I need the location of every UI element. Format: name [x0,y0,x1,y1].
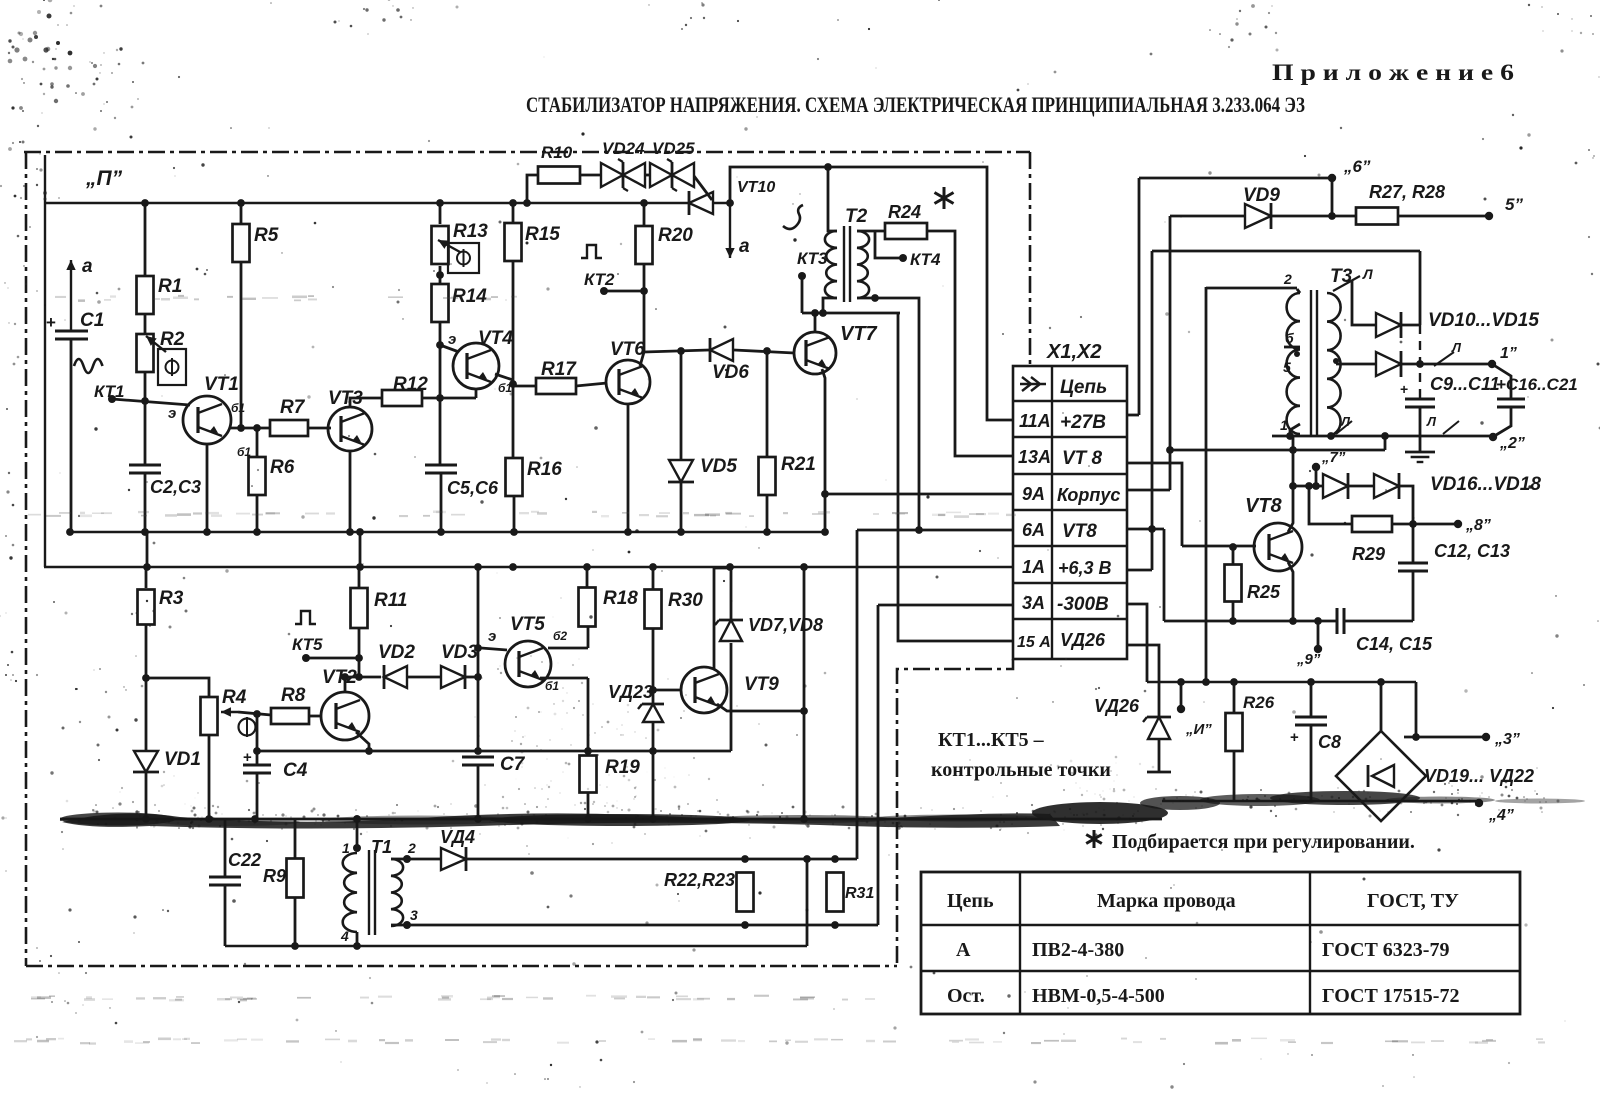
arrow a test point [729,203,731,258]
diode VD6 [710,339,733,361]
svg-text:15 А: 15 А [1017,634,1051,651]
T3 pin 2 lead [1297,289,1300,293]
svg-text:Ост.: Ост. [947,985,985,1007]
wire C2C3 down to bus [144,473,147,532]
svg-text:R29: R29 [1352,544,1385,564]
svg-text:1: 1 [342,840,350,856]
wire -300V bus y=682 [1147,681,1416,684]
junction terminal9 stub [1314,617,1322,625]
junction R22 top [741,855,749,863]
junction T2 left bottom [819,309,827,317]
svg-text:ГОСТ 17515-72: ГОСТ 17515-72 [1322,985,1459,1007]
wire VT9 collector riser [713,568,716,669]
svg-text:VT8: VT8 [1245,495,1283,517]
diode VD4 [407,858,441,861]
junction x1206 bottom [1202,678,1210,686]
svg-text:СТАБИЛИЗАТОР НАПРЯЖЕНИЯ. СХЕМА: СТАБИЛИЗАТОР НАПРЯЖЕНИЯ. СХЕМА ЭЛЕКТРИЧЕ… [526,92,1305,117]
bridge rectifier VD19...VD22 [1336,731,1426,821]
wire VD9 to R27 [1271,215,1357,218]
wire VD4 output y=859 [466,858,857,861]
junction x1293 [1289,446,1297,454]
svg-text:VD5: VD5 [700,456,737,477]
svg-text:VT8: VT8 [1062,521,1097,542]
wire KT3 down [801,276,804,313]
smudge speckle clouds [66,572,1174,854]
junction VT2 collector [341,673,349,681]
wire VD3 to column [465,676,478,679]
junction 6A stub [1148,525,1156,533]
wire VT5 collector to R18 [548,647,588,650]
junction VD3 [474,673,482,681]
svg-text:VD10...VD15: VD10...VD15 [1428,310,1539,331]
svg-text:6А: 6А [1022,520,1045,540]
svg-text:VT 8: VT 8 [1062,448,1103,469]
wire VD5 to bus [680,482,683,532]
svg-text:VT5: VT5 [510,614,545,635]
terminal 6 [1328,174,1336,182]
transistor VT5 [505,641,551,687]
svg-text:Подбирается при регулировании.: Подбирается при регулировании. [1112,831,1415,853]
svg-text:-300В: -300В [1057,594,1109,615]
capacitor C9...C11 [1405,398,1435,401]
svg-text:А: А [956,939,971,961]
wire 1A row right stub [1127,569,1152,572]
resistor R17 [536,378,576,394]
transistor VT7 [794,332,836,374]
wire to VT9 base [653,689,681,692]
wire VD2-VD3 [407,676,441,679]
svg-text:+C16..C21: +C16..C21 [1496,375,1578,394]
wire R24 right to 13A column [926,231,1013,456]
resistor R21 [759,457,776,495]
phi box of R2 [158,349,186,385]
junction R26 top [1230,678,1238,686]
junction [1412,733,1420,741]
svg-text:R1: R1 [158,276,182,297]
junction on ground bus [437,528,445,536]
wire +27V from node a up and right to connector [730,167,1013,420]
transistor VT4 [453,343,499,389]
wire x=857 vertical 6A to VD4 line [856,530,859,859]
terminal 8 [1454,520,1462,528]
junction R21 top [763,347,771,355]
wire R6 top lead [256,428,259,457]
junction VT2 emitter [365,747,373,755]
node R15 top [509,199,517,207]
smudge speckle fringe [60,781,1560,841]
junction R29 branch [1305,482,1313,490]
wire x=878 vertical -300V to T1 pin3 line [877,605,880,925]
wire y=751 line [257,750,731,753]
junction on 6.3V bus [649,563,657,571]
svg-text:VD24: VD24 [602,139,645,158]
wire VT4 base down [475,389,478,398]
wire VT4 collector [495,374,513,380]
wire x=807 vertical [806,859,809,946]
junction R19 top [584,747,592,755]
wire C9 feed line y=251 [1152,250,1420,253]
junction C12 top [1409,520,1417,528]
wire riser 6A to y=621 line [1163,529,1166,621]
wire R29 to terminal 8 [1392,523,1455,526]
wire C22 down [224,885,227,946]
svg-text:R31: R31 [845,885,874,902]
junction VD5 branch [677,347,685,355]
junction C8 top [1307,678,1315,686]
resistor R13 variable [432,226,449,264]
wire VT2 collector to VD2 [345,676,381,679]
terminal 5 [1485,212,1493,220]
corner to y436 [1384,436,1387,450]
svg-text:R3: R3 [159,588,184,609]
wire R10 loop [527,175,538,203]
corner 9A bus [821,528,829,536]
T1 pin4 [356,932,359,946]
junction on ground bus [356,528,364,536]
transistor VT8 [1254,523,1302,571]
resistor R11 [358,567,361,588]
capacitor C4 [256,714,259,765]
diode VD1 zener [145,678,148,751]
svg-text:КТ5: КТ5 [292,635,323,654]
dash-dot shield border near table bottom [897,659,1013,966]
svg-text:+: + [243,749,252,766]
svg-text:э: э [448,331,456,348]
svg-text:2: 2 [407,840,416,856]
wire R6 to bus [256,495,259,532]
wire +27V riser to terminal 6 line [1138,178,1141,415]
wire R29 branch [1309,486,1352,524]
svg-text:КТ4: КТ4 [910,250,941,269]
junction on 6.3V bus [509,563,517,571]
wire R20 down to VT6 collector [643,264,646,352]
transistor VT6 [606,360,650,404]
wire VD1 to ground [145,772,148,819]
phi circle of R4 [239,719,256,736]
svg-text:3: 3 [410,907,418,923]
svg-text:VT4: VT4 [478,328,513,349]
wire C5C6 to bus [440,473,443,532]
svg-text:„И”: „И” [1185,721,1212,738]
node R12/VT4 base [436,394,444,402]
junction on ground bus [253,528,261,536]
svg-text:НВМ-0,5-4-500: НВМ-0,5-4-500 [1032,985,1165,1007]
svg-text:VT9: VT9 [744,674,779,695]
junction on main ground [251,815,259,823]
wire R21 to bus [766,495,769,532]
wire T3 pin2 riser down to -300 bus [1205,287,1208,682]
wire C7 to ground [477,765,480,819]
wire VD18 cathode down [1399,486,1413,524]
wire to terminal 3 [1404,736,1484,739]
junction on 6.3V bus [726,563,734,571]
T1 pin2 [403,855,411,863]
wire C4 to ground [256,773,259,819]
junction C4 top [253,710,261,718]
svg-text:КТ2: КТ2 [584,270,615,289]
wire T2 left bottom [823,298,837,313]
junction on main ground [205,815,213,823]
wire KT2 to R20 column [604,290,644,293]
svg-text:R27, R28: R27, R28 [1369,182,1445,202]
svg-text:C12, C13: C12, C13 [1434,541,1510,561]
wire R1 top lead [144,203,147,275]
svg-text:R20: R20 [658,225,693,246]
wire VD25 diagonal down to VT10 [694,176,712,200]
junction VT4 emitter wire [436,341,444,349]
wire R8 to VT2 base [308,715,321,718]
svg-text:б1: б1 [545,679,559,693]
svg-text:„3”: „3” [1494,731,1520,748]
wire R15 column down to R16 [512,386,515,458]
diode VD3 [441,666,465,688]
capacitor C1 [55,330,88,333]
capacitor +C16..C21 [1492,364,1511,399]
svg-text:б: б [1285,330,1294,346]
wire R7 to VT3 [308,427,331,430]
svg-text:R30: R30 [668,590,703,611]
wire VT5 base to R19 riser [540,677,588,680]
svg-text:VД23: VД23 [608,682,653,702]
wire 15A row to VD26 [1127,645,1159,717]
junction R13-R14 [436,271,444,279]
diodes VD10...VD15 lower [1336,363,1376,366]
junction T2 top [824,163,832,171]
wire VT8 collector [1288,486,1293,532]
scan smudge band [60,791,1585,829]
svg-text:2: 2 [1283,271,1292,287]
dashed link VD12..VD15 omitted [1419,325,1421,399]
diode VD7,VD8 zener [730,568,733,620]
svg-text:„9”: „9” [1296,651,1321,668]
star: selected on adjustment [943,187,946,209]
wire C9 feed corner down from y251 [1419,251,1422,325]
svg-text:VD9: VD9 [1243,185,1280,206]
wire KT1 to VT1 base [112,399,190,405]
svg-text:R12: R12 [393,374,428,395]
wire VT3 collector to R12 [350,398,383,408]
resistor R6 [249,457,266,495]
svg-text:КТ3: КТ3 [797,249,828,268]
junction on ground bus [624,528,632,536]
terminal 2 [1489,433,1497,441]
node a branch [726,199,734,207]
svg-text:П р и л о ж е н и е 6: П р и л о ж е н и е 6 [1272,60,1514,85]
resistor R19 [580,756,597,793]
svg-text:VD25: VD25 [652,139,695,158]
svg-text:R10: R10 [541,143,573,162]
resistor R9 [294,819,297,859]
svg-text:VD16...VD18: VD16...VD18 [1430,474,1541,495]
svg-text:Корпус: Корпус [1057,485,1120,505]
wire 9A Корпус row to VT7 emitter [825,493,1013,496]
svg-text:VT1: VT1 [204,374,239,395]
junction on 6.3V bus [800,563,808,571]
resistor R10 [538,167,580,184]
wire VT4 base/R12 node down to C5C6 [439,398,442,464]
wire VT8 base [1182,545,1256,548]
wire R13 top lead [439,203,442,224]
wire VD16 anode row [1293,485,1323,488]
arrow a at C1 [70,260,72,330]
wire R4 wiper to R8 [238,712,271,715]
wire T2 left top to +27 wire [828,167,837,231]
resistor R24 [885,223,927,239]
diode pair VD24 [601,163,623,187]
transistor VT3 [328,407,372,451]
resistor R7 [270,420,308,436]
wire R5 down to collector node [240,262,243,428]
wire T2 right top to R24 [857,230,886,233]
junction on ground bus [203,528,211,536]
svg-text:+6,3 В: +6,3 В [1058,558,1112,578]
wire x=1152 from C9 feed line down to 1A row [1151,251,1154,570]
svg-text:R15: R15 [525,224,560,245]
T3 secondary top mark [1333,276,1360,291]
wire x=804 vertical [803,567,806,819]
svg-text:VT10: VT10 [737,179,775,196]
svg-text:Цепь: Цепь [1060,377,1107,398]
svg-text:R11: R11 [374,590,407,611]
svg-text:VT7: VT7 [840,323,878,345]
wire bottom return y=946 [225,945,807,948]
junction on main ground [142,815,150,823]
wire to T3 pin 2 [1206,287,1297,290]
wire R14 down [439,322,442,398]
junction VT8 emitter [1289,617,1297,625]
diode VD23 [652,690,655,704]
diode pair VD25 [650,163,672,187]
wire VT4 emitter [440,345,459,352]
wire secondary bottom y=436 [1272,435,1490,438]
sine symbol at KT1 [74,359,103,373]
wire output 1 line [1401,363,1490,366]
junction KT5 wire [355,654,363,662]
svg-text:R2: R2 [160,329,185,350]
svg-text:R8: R8 [281,685,306,706]
wire between VD16 diodes [1348,485,1374,488]
junction И stub [1177,678,1185,686]
wire to R4 top [146,678,209,697]
wire VT9 emitter [717,704,804,711]
wire R18 bottom lead [587,627,590,648]
svg-text:R18: R18 [603,588,638,609]
svg-text:„4”: „4” [1488,807,1514,824]
junction 6A [915,526,923,534]
resistor R4 variable [201,697,218,735]
resistor R5 [240,203,243,224]
svg-text:VД4: VД4 [440,827,475,847]
wire 13A row stub to VT8 base jog [1127,463,1182,546]
svg-text:a: a [82,256,93,277]
T1 pin3 [403,921,411,929]
wire R9 down [294,898,297,946]
terminal И stub [1180,682,1183,707]
junction VT7 collector [811,309,819,317]
svg-text:1”: 1” [1500,345,1517,362]
resistor R20 [643,203,646,226]
wire VT5 emitter left [481,648,507,650]
svg-text:C22: C22 [228,850,261,870]
wire x=1170 VD9 line down to 9A row [1169,216,1172,490]
resistor R8 [271,708,309,724]
wire VT1 emitter to bus [206,444,209,532]
junction C4 branch [253,747,261,755]
diodes VD16...VD18 second [1374,474,1399,498]
junction R3/R4/VD1 [142,674,150,682]
terminal 3 [1482,733,1490,741]
connector symbol arrow [1020,383,1038,385]
wire VT6 emitter to bus [627,403,630,532]
wire main ground bus y=819 [60,818,1162,821]
capacitor C12,C13 [1412,524,1415,563]
svg-text:R13: R13 [453,221,488,242]
svg-text:1: 1 [1280,417,1288,433]
svg-text:C4: C4 [283,760,308,781]
wire emitter column x=478 [477,567,480,751]
svg-text:+: + [1400,381,1408,397]
wire R19 to ground [587,793,590,819]
svg-text:a: a [739,236,750,257]
resistor R1 [137,276,154,314]
resistor R30 [652,567,655,590]
wire 3A row to x=878 [878,604,1013,607]
photocopy dash noise rows [14,295,1545,1045]
junction on ground bus [677,528,685,536]
wire VT7 collector up [814,313,817,332]
junction R6 top [253,424,261,432]
wire table [921,872,1520,1014]
wire VD26 bottom bar [1158,739,1161,771]
wire VD23 down to ground [652,722,655,819]
diode VD9 [1245,204,1271,228]
junction C7 top [474,747,482,755]
wire secondary top to VD10 row [1352,281,1376,325]
junction R31 top [831,855,839,863]
wire R1-R2 [144,315,147,333]
phi box of R13 [448,243,479,273]
svg-text:„П”: „П” [85,167,123,190]
wire KT5 to R11 column [306,657,359,660]
svg-text:VД26: VД26 [1060,630,1106,650]
junction T1 pin4 [353,942,361,950]
svg-text:VД26: VД26 [1094,696,1140,716]
svg-text:4: 4 [340,928,349,944]
note star adjust [1093,830,1096,848]
wire y=178 to terminal 6 [1139,177,1332,180]
svg-text:б1: б1 [231,401,245,415]
junction on main ground [584,815,592,823]
wire R4 bottom to ground [208,735,211,819]
resistor R18 [586,567,589,588]
T3 tap 5/6 [1284,346,1300,349]
wire VD7 bottom to y751 [730,643,733,751]
svg-text:13А: 13А [1018,447,1051,467]
svg-text:C14, C15: C14, C15 [1356,634,1433,654]
wire VD7 branch top [714,567,731,570]
svg-text:5”: 5” [1505,195,1523,214]
resistor R15 [505,223,522,261]
junction on 6.3V bus [583,563,591,571]
capacitor C8 [1310,682,1313,716]
wire VT6 collector node to VD6 [644,350,709,352]
pulse symbol KT5 [295,611,316,624]
resistor R22,R23 [737,873,754,912]
svg-text:9А: 9А [1022,484,1045,504]
wire VD5 branch down [680,351,683,460]
svg-text:VD1: VD1 [164,749,201,770]
svg-text:+: + [46,313,56,332]
